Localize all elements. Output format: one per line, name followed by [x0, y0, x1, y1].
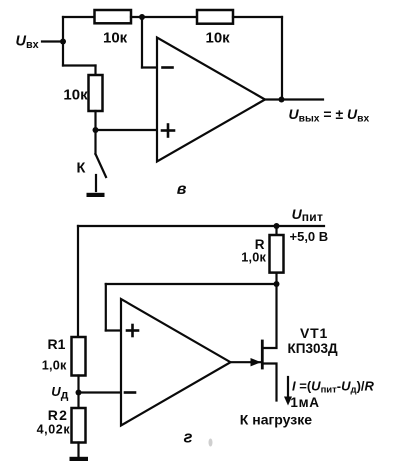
svg-text:+5,0 В: +5,0 В	[290, 229, 329, 244]
svg-text:10к: 10к	[206, 30, 231, 47]
svg-text:г: г	[184, 428, 193, 446]
current formula label	[292, 378, 375, 395]
node Uvx input label	[16, 33, 39, 51]
svg-text:10к: 10к	[103, 30, 128, 47]
switch label K	[77, 161, 86, 177]
value label 10k	[103, 30, 128, 47]
current arrow I	[284, 377, 292, 406]
resistor 10k (feedback)	[197, 10, 233, 24]
ref label R2	[48, 407, 68, 423]
resistor 10k (input, upper branch)	[95, 10, 132, 23]
node D (output node)	[279, 97, 285, 103]
ref label R	[255, 237, 265, 252]
sub-figure label g	[184, 428, 193, 446]
wire	[77, 376, 79, 409]
wire	[79, 391, 122, 393]
wire	[96, 129, 158, 131]
wire	[141, 17, 143, 68]
resistor R1	[72, 337, 86, 376]
wire	[62, 42, 64, 66]
pin label minus	[125, 391, 135, 394]
print artifact speck	[209, 439, 213, 447]
node A (input node)	[60, 39, 66, 45]
wire	[275, 273, 277, 284]
node G (Ud node)	[76, 390, 82, 396]
wire	[105, 284, 107, 331]
load label K nagruzke	[240, 411, 312, 427]
node F (sense node)	[274, 281, 280, 287]
ref label VT1	[300, 325, 328, 341]
transistor VT1 source lead	[262, 364, 276, 401]
switch K	[96, 130, 107, 191]
svg-text:10к: 10к	[63, 86, 88, 103]
svg-text:КП303Д: КП303Д	[288, 341, 338, 356]
op-amp U1	[157, 38, 265, 162]
wire	[231, 361, 262, 363]
svg-text:в: в	[177, 181, 187, 198]
svg-text:R1: R1	[48, 336, 66, 352]
node B (summing node)	[139, 14, 145, 20]
ground	[70, 457, 89, 461]
wire	[265, 98, 323, 100]
pin label minus	[163, 66, 173, 69]
value label 10k	[63, 86, 88, 103]
part label KP303D	[288, 341, 338, 356]
pin label plus	[162, 125, 174, 137]
wire	[281, 17, 283, 100]
wire	[106, 283, 277, 285]
resistor R2	[72, 408, 86, 443]
wire	[62, 17, 64, 42]
op-amp U2	[121, 299, 231, 426]
svg-text:4,02к: 4,02к	[37, 422, 71, 436]
node E (supply node)	[274, 223, 280, 229]
svg-text:К: К	[77, 161, 86, 177]
value label 1,0k	[42, 358, 67, 372]
supply label Upit	[292, 206, 324, 224]
wire	[63, 64, 96, 66]
wire	[77, 443, 79, 458]
wire	[94, 66, 96, 76]
value label 4,02k	[37, 422, 71, 436]
wire	[233, 16, 282, 18]
transistor VT1 gate arrow	[251, 358, 262, 366]
resistor 10k (lower branch)	[89, 75, 103, 111]
wire	[94, 111, 96, 130]
wire	[131, 16, 197, 18]
value label 1,0k	[241, 251, 266, 265]
svg-text:VT1: VT1	[300, 325, 328, 341]
output label Uvyh	[289, 106, 370, 124]
current value label 1mA	[290, 395, 319, 410]
pin label plus	[127, 325, 138, 336]
sub-figure label v	[177, 181, 187, 198]
svg-text:1мА: 1мА	[290, 395, 319, 410]
wire	[77, 226, 79, 337]
wire	[42, 40, 63, 42]
wire	[275, 226, 277, 235]
ground	[87, 193, 105, 197]
wire	[142, 66, 157, 68]
supply value +5,0 V	[290, 229, 329, 244]
node C (noninverting node)	[93, 127, 99, 133]
input label Ud	[51, 384, 68, 401]
wire	[106, 329, 121, 331]
svg-text:К нагрузке: К нагрузке	[240, 411, 312, 427]
svg-text:Uд: Uд	[51, 384, 68, 401]
svg-text:1,0к: 1,0к	[241, 251, 266, 265]
svg-text:R2: R2	[48, 407, 68, 423]
value label 10k	[206, 30, 231, 47]
resistor R	[270, 235, 284, 273]
wire	[63, 16, 95, 18]
transistor VT1 channel	[261, 341, 264, 368]
transistor VT1 drain lead	[262, 284, 276, 348]
wire	[78, 225, 324, 227]
svg-text:1,0к: 1,0к	[42, 358, 67, 372]
ref label R1	[48, 336, 66, 352]
